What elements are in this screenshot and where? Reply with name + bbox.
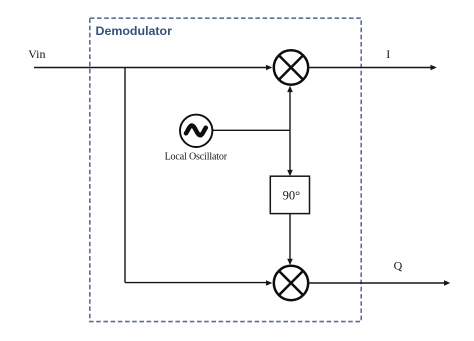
svg-text:Q: Q [394, 259, 403, 273]
svg-text:Demodulator: Demodulator [96, 24, 173, 38]
svg-text:Local Oscillator: Local Oscillator [165, 151, 228, 162]
svg-text:Vin: Vin [28, 47, 45, 61]
svg-text:I: I [386, 47, 390, 61]
svg-text:90°: 90° [283, 189, 301, 203]
